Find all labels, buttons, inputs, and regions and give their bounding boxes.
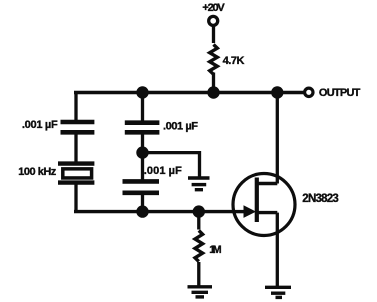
ground GND3 under source	[265, 287, 291, 297]
svg-text:4.7K: 4.7K	[223, 55, 245, 67]
junction dot: rail / drain-output	[271, 86, 283, 98]
capacitor C3 bottom plate	[123, 191, 160, 196]
transistor Q1 source lead	[257, 211, 278, 214]
junction dot: rail / R1	[207, 86, 219, 98]
crystal Y1 100 kHz top plate	[58, 161, 94, 165]
wire: bottom rail / gate line	[74, 210, 247, 213]
svg-text:OUTPUT: OUTPUT	[319, 87, 361, 99]
wire: 1M branch down from bottom rail	[197, 212, 200, 230]
svg-text:100 kHz: 100 kHz	[18, 166, 57, 178]
wire: source to ground	[276, 213, 279, 287]
wire: R1 to top rail	[212, 73, 215, 93]
capacitor C3 .001 uF top plate	[123, 179, 160, 184]
capacitor C1 bottom plate	[61, 130, 95, 135]
junction dot: node A between C2 and C3	[136, 146, 148, 158]
svg-text:.001 µF: .001 µF	[22, 119, 58, 131]
wire: middle branch down from rail	[141, 93, 144, 123]
wire: C1 to crystal Y1	[74, 134, 77, 162]
wire: top rail	[74, 91, 304, 95]
capacitor C2 .001 uF top plate	[125, 120, 160, 125]
junction dot: rail / C2 branch	[136, 86, 148, 98]
svg-text:.001 µF: .001 µF	[163, 120, 198, 132]
crystal Y1 bottom plate	[58, 180, 94, 184]
wire: crystal to bottom rail	[74, 184, 77, 212]
wire: node A to middle ground	[143, 153, 200, 177]
transistor Q1 drain lead	[257, 182, 278, 185]
wire: C3 to bottom rail	[141, 194, 144, 212]
wire: gate segment inside transistor	[233, 210, 245, 213]
svg-text:.001 µF: .001 µF	[144, 165, 182, 177]
transistor Q1 channel bar	[255, 178, 259, 223]
wire: R2 to ground	[197, 262, 200, 286]
capacitor C1 .001 uF top plate	[61, 120, 95, 125]
resistor R2 1M	[195, 231, 203, 262]
wire: +20V terminal to resistor R1	[212, 27, 215, 44]
output terminal	[305, 88, 313, 96]
wire: node A down to C3	[141, 153, 144, 181]
resistor R1 4.7K	[210, 45, 218, 75]
svg-text:2N3823: 2N3823	[302, 193, 339, 205]
ground GND2 under R2	[188, 287, 213, 297]
transistor Q1 gate arrowhead	[244, 205, 257, 218]
junction dot: bottom rail / C3	[136, 205, 148, 217]
transistor Q1 2N3823 body	[233, 174, 295, 236]
wire: left branch down from rail	[74, 93, 77, 123]
ground GND1 middle	[188, 178, 210, 190]
supply terminal +20V	[209, 16, 218, 25]
svg-text:+20V: +20V	[202, 2, 225, 14]
wire: C2 to junction node A	[141, 134, 144, 153]
capacitor C2 bottom plate	[125, 130, 160, 135]
svg-text:1M: 1M	[209, 244, 222, 256]
wire: drain to top rail	[276, 93, 279, 184]
junction dot: bottom rail / R2	[193, 205, 205, 217]
crystal Y1 body	[63, 169, 92, 178]
